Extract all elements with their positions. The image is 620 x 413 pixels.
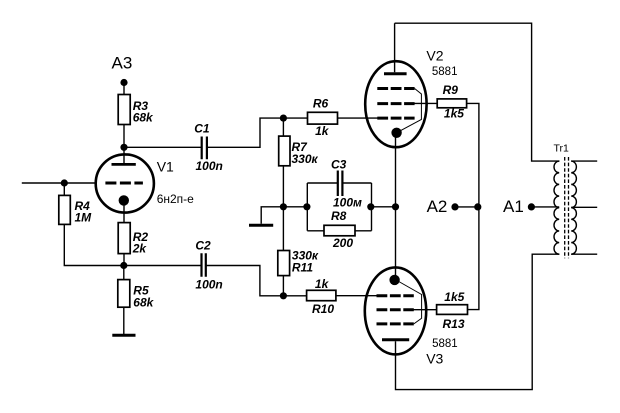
wire: V1 cathode to R2 — [123, 204, 125, 223]
node: cathode line junction — [392, 203, 399, 210]
wire: C1 to V2 grid column — [207, 118, 307, 147]
transformer Tr1 core — [565, 157, 569, 258]
wire: A3 to R3 — [123, 83, 125, 95]
svg-text:R6: R6 — [313, 97, 329, 111]
ground: middle ground bar — [249, 224, 273, 227]
svg-text:1k5: 1k5 — [444, 290, 464, 304]
svg-text:C2: C2 — [195, 239, 211, 253]
wire: anode node to C1 — [124, 146, 201, 148]
capacitor C3 plates — [338, 171, 343, 197]
node A1 terminal — [528, 203, 535, 210]
tube V2 grid dashes — [377, 89, 414, 119]
transformer Tr1 secondary winding — [571, 161, 576, 254]
svg-text:1k5: 1k5 — [444, 107, 464, 121]
svg-text:C1: C1 — [194, 122, 210, 136]
tube V2 beam plate tie — [397, 89, 421, 133]
tube V1 anode lead — [123, 147, 125, 163]
svg-text:V1: V1 — [157, 159, 174, 175]
wire: loop to cathode line — [372, 206, 396, 208]
svg-text:100n: 100n — [196, 159, 223, 173]
capacitor C2 — [195, 239, 222, 292]
ground: V1 cathode ground bar — [112, 334, 135, 337]
resistor R8 — [324, 209, 355, 250]
resistor R3 — [118, 95, 154, 125]
wire: R4 branch down and to bias node — [64, 183, 124, 266]
resistor R4 — [59, 195, 92, 224]
resistor R10 — [307, 277, 336, 316]
wire: ground node to C3/R8 loop — [283, 206, 307, 208]
wire: A2 stub — [455, 206, 479, 208]
wire: A1 to transformer center tap — [531, 206, 559, 208]
transformer Tr1 primary winding — [554, 161, 559, 254]
resistor R2 — [118, 223, 148, 256]
svg-text:R8: R8 — [331, 209, 347, 223]
resistor R6 — [308, 97, 338, 139]
svg-text:6н2п-е: 6н2п-е — [157, 192, 194, 206]
svg-text:A1: A1 — [503, 197, 524, 216]
svg-text:R10: R10 — [312, 302, 334, 316]
tube V1 grid dashes — [105, 182, 142, 185]
tube V3 envelope — [365, 267, 426, 354]
wire: R10 to V3 grid — [336, 295, 377, 297]
svg-text:200: 200 — [332, 236, 353, 250]
svg-text:R13: R13 — [443, 317, 465, 331]
resistor R13 — [437, 290, 468, 331]
svg-text:R9: R9 — [443, 83, 459, 97]
svg-text:V2: V2 — [426, 48, 443, 64]
wire: R5 to ground — [123, 266, 125, 335]
svg-text:R11: R11 — [292, 261, 313, 275]
svg-text:5881: 5881 — [432, 338, 458, 350]
node: R6/R7 junction — [280, 115, 287, 122]
tube V1 anode bar — [112, 163, 136, 166]
tube V2 anode bar — [384, 72, 407, 75]
wire: R3 to anode node — [123, 125, 125, 148]
tube V3 grid dashes — [377, 296, 414, 324]
svg-text:100n: 100n — [195, 278, 222, 292]
wire: C3/R8 loop frame — [307, 183, 371, 231]
wire: V1 grid input — [22, 182, 96, 184]
wire: V2 screen to R9 — [407, 102, 437, 104]
tube V3 anode bar — [382, 338, 409, 341]
tube V2 envelope — [365, 61, 426, 147]
wire: V2 cathode line down to V3 cathode — [395, 133, 397, 280]
wire: R11 vertical chain — [282, 207, 284, 296]
svg-text:330к: 330к — [292, 152, 319, 166]
resistor R11 — [278, 249, 319, 276]
tube V3 beam plate tie — [397, 281, 422, 324]
svg-text:1M: 1M — [75, 211, 93, 225]
svg-text:V3: V3 — [426, 351, 443, 367]
capacitor C1 — [194, 122, 223, 174]
wire: V3 screen to R13 — [406, 309, 437, 311]
wire: R6 to V2 grid — [338, 117, 378, 119]
node: R10/R11 junction — [280, 292, 287, 299]
tube V3 cathode dot — [389, 275, 399, 285]
svg-text:5881: 5881 — [432, 66, 458, 78]
svg-text:A3: A3 — [112, 54, 133, 73]
svg-text:1k: 1k — [315, 277, 330, 291]
wire: C2 to V3 grid column — [206, 266, 306, 296]
svg-text:100м: 100м — [333, 196, 362, 210]
node: R2/R4/R5/C2 junction — [120, 262, 127, 269]
wire: R7 vertical chain — [282, 118, 284, 207]
svg-text:1k: 1k — [315, 124, 330, 138]
svg-text:2k: 2k — [132, 242, 148, 256]
wire: bias node to C2 — [124, 265, 201, 267]
wire: R2 to bias node — [123, 254, 125, 266]
tube V1 envelope — [96, 154, 154, 212]
capacitor C3 labels — [331, 158, 362, 210]
node: input/R4 junction — [61, 179, 68, 186]
resistor R5 — [118, 280, 155, 310]
svg-text:Tr1: Tr1 — [554, 143, 570, 155]
node A2 terminal — [451, 203, 458, 210]
node A3 terminal — [120, 79, 127, 86]
resistor R7 — [279, 136, 319, 166]
node: loop left — [303, 203, 310, 210]
node: loop right — [367, 203, 374, 210]
tube V1 cathode dot — [119, 195, 129, 205]
wire: R9 right to feedback vertical — [467, 103, 479, 309]
wire: ground stub — [261, 207, 283, 224]
wire: V2 anode top rail to transformer — [395, 23, 560, 161]
node: ground rail junction — [280, 203, 287, 210]
node: V1 anode — [120, 144, 127, 151]
svg-text:68k: 68k — [133, 111, 154, 125]
svg-text:C3: C3 — [331, 158, 347, 172]
svg-text:A2: A2 — [427, 197, 448, 216]
tube V2 cathode dot — [391, 128, 401, 138]
node: feedback vertical at A2 — [474, 203, 481, 210]
svg-text:68k: 68k — [133, 296, 154, 310]
wire: secondary taps — [571, 161, 597, 254]
wire: V3 anode to transformer bottom — [396, 254, 560, 389]
resistor R9 — [437, 83, 466, 121]
